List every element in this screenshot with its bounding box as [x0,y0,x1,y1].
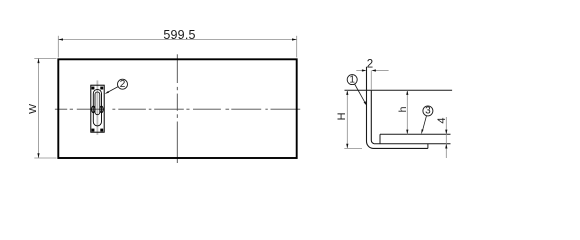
right view leg end cap [427,144,429,149]
svg-text:2: 2 [367,59,373,71]
svg-text:1: 1 [349,74,355,85]
label 3 circle [423,106,433,116]
svg-text:599.5: 599.5 [163,28,195,42]
inner slot stadium [95,92,100,115]
slot corner dot bottom-left [92,129,95,132]
slot corner dot bottom-right [100,129,103,132]
plate horizontal centerline [55,108,300,110]
right view leg top surface / panel bottom line [375,143,451,145]
right view vertical leg outer [367,67,428,149]
slot plate rectangle [91,85,104,132]
dimension h line [406,90,408,134]
panel left edge [379,134,381,144]
right view vertical leg inner [370,71,372,91]
svg-text:h: h [397,106,409,112]
dimension 2 line left [356,70,362,72]
dimension 2 line right [376,70,389,72]
label 1 circle [347,75,357,85]
svg-text:3: 3 [425,106,431,117]
dimension 599.5 extension lines [57,36,59,58]
label 2 leader [108,87,118,92]
svg-text:W: W [27,104,39,114]
dimension W line [38,58,40,158]
dimension 4 line [445,117,447,158]
svg-text:4: 4 [436,118,448,124]
svg-text:H: H [336,112,348,120]
dimension W extension lines [34,57,56,59]
slot vertical centerline (gray) [96,80,98,134]
slot corner dot top-left [92,87,95,90]
dimension 599.5 line [58,39,296,41]
label 3 leader [423,116,427,130]
plate outline [58,59,296,158]
side ellipse right [100,106,103,113]
side ellipse left [92,106,95,113]
dimension H extension bottom [344,147,362,149]
panel top line [380,133,451,135]
dimension H line [346,90,348,148]
right view top line [345,89,453,91]
label 1 leader [355,84,365,103]
plate vertical centerline [176,54,178,163]
svg-text:2: 2 [120,79,126,90]
outer slot stadium [93,89,101,126]
slot corner dot top-right [100,87,103,90]
label 2 circle [118,79,128,89]
